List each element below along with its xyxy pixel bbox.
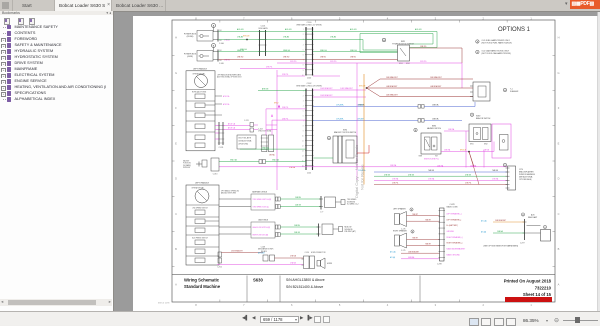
note circle B hazard <box>414 128 417 132</box>
svg-text:C-878: C-878 <box>437 264 442 266</box>
svg-text:S-3 (GRN) 1 C-2: S-3 (GRN) 1 C-2 <box>347 204 359 206</box>
svg-text:GROUND: GROUND <box>183 167 191 169</box>
svg-text:C7B RA: C7B RA <box>392 178 399 181</box>
svg-text:C: C <box>558 212 560 216</box>
svg-text:C/FLASH+: C/FLASH+ <box>336 104 344 107</box>
connector C101 <box>258 26 268 57</box>
svg-text:7HB BU: 7HB BU <box>428 170 435 172</box>
svg-text:POSITION: POSITION <box>183 163 191 165</box>
svg-text:GNB GG: GNB GG <box>320 50 327 52</box>
svg-text:GNB GG: GNB GG <box>237 50 245 52</box>
svg-text:HORN CONNECTOR: HORN CONNECTOR <box>311 252 326 254</box>
wire magenta hazard-beacon loop <box>441 128 494 152</box>
svg-text:C-877: C-877 <box>520 243 525 245</box>
wire blue cflash minus <box>313 118 462 123</box>
svg-text:7KB WT: 7KB WT <box>412 238 418 240</box>
svg-text:LEFT SPEAKER: LEFT SPEAKER <box>393 208 406 211</box>
drawing frame border <box>172 20 555 302</box>
svg-text:19B RD: 19B RD <box>350 57 357 59</box>
svg-text:SPLICE: SPLICE <box>359 86 366 88</box>
svg-text:C4B BN: C4B BN <box>295 197 302 199</box>
svg-text:GNB GG: GNB GG <box>283 50 291 52</box>
wire darkred SW1 right <box>410 46 463 63</box>
note circle A flasher <box>503 88 519 93</box>
wire green gateway out <box>280 197 321 199</box>
svg-text:SOLENOID: SOLENOID <box>347 201 356 203</box>
extra wire labels texture <box>390 164 499 185</box>
svg-text:D: D <box>558 177 560 181</box>
svg-text:1-MX BRACKET: 1-MX BRACKET <box>320 87 332 90</box>
wires C911 to C111 magenta <box>223 123 250 130</box>
wire blue to C270 <box>358 169 507 172</box>
svg-text:A7U3 CA: A7U3 CA <box>228 127 236 130</box>
left handle control box 2 <box>186 182 219 266</box>
svg-text:D7B PIL: D7B PIL <box>420 61 427 63</box>
wire darkred horn feed <box>222 249 264 252</box>
svg-text:(SPDM DHD): (SPDM DHD) <box>239 144 249 146</box>
switch SW5 hazard <box>419 126 442 158</box>
svg-text:SW2: SW2 <box>484 144 488 146</box>
connector C100 <box>296 22 322 80</box>
note circle A at SW1 <box>382 38 386 42</box>
note A text <box>476 39 512 45</box>
svg-text:47B GN: 47B GN <box>465 174 472 176</box>
wire magenta row76 <box>277 74 340 76</box>
label A/FLASH cyan <box>258 251 265 254</box>
svg-text:19B RD: 19B RD <box>283 57 290 59</box>
note circle A <box>212 24 216 32</box>
svg-text:C102: C102 <box>307 173 311 175</box>
svg-text:A05 GN: A05 GN <box>350 28 357 31</box>
svg-text:16: 16 <box>302 166 304 168</box>
connector C136 horn <box>302 252 327 269</box>
orange vertical wire <box>364 74 367 185</box>
note circle A sw4 <box>327 136 330 140</box>
label OPTIONS 1 <box>498 27 531 33</box>
socket position ground <box>183 158 219 176</box>
wire magenta row97 <box>313 94 366 97</box>
svg-text:RADIO CONN: RADIO CONN <box>447 205 459 208</box>
wires speakers to radio <box>407 214 440 246</box>
svg-text:11: 11 <box>302 141 304 143</box>
svg-text:C-111: C-111 <box>244 120 249 122</box>
svg-text:C-908: C-908 <box>261 247 265 249</box>
handle1 pin stubs <box>215 95 229 115</box>
label see option pages <box>484 245 519 248</box>
splice S1 <box>243 36 250 41</box>
horn speaker symbol <box>317 258 333 269</box>
connector C270 <box>503 163 534 190</box>
svg-text:S630: S630 <box>253 278 263 283</box>
splice S3 <box>460 150 479 185</box>
svg-text:CAN STBLB: CAN STBLB <box>258 219 269 222</box>
svg-text:RADIO GROUND: RADIO GROUND <box>447 253 461 256</box>
svg-text:C: C <box>175 212 177 216</box>
svg-text:B: B <box>175 247 177 251</box>
note circle B <box>212 44 216 52</box>
wire green GNB-GG <box>219 50 398 52</box>
svg-text:D7B PIL: D7B PIL <box>266 67 272 69</box>
radio connector C878 <box>437 204 458 266</box>
svg-text:TWO SPEED: TWO SPEED <box>347 199 357 201</box>
watermark digital copy <box>354 144 365 198</box>
svg-text:LEFT SPEAKER (+): LEFT SPEAKER (+) <box>447 213 463 216</box>
connector two speed <box>319 196 323 214</box>
svg-text:C-9?: C-9? <box>320 212 323 214</box>
svg-text:Sheet 14 of 15: Sheet 14 of 15 <box>523 292 552 297</box>
svg-text:CMB VA: CMB VA <box>432 104 439 107</box>
right speaker RS1 <box>393 230 414 253</box>
svg-text:C4B GN: C4B GN <box>295 205 302 207</box>
wires handle1 to C911 magenta <box>215 126 219 140</box>
svg-text:C6B RA: C6B RA <box>470 165 477 168</box>
svg-text:919: 919 <box>435 156 438 158</box>
svg-text:LEFT SPEAKER (-): LEFT SPEAKER (-) <box>447 218 462 221</box>
svg-text:7322210: 7322210 <box>535 286 552 291</box>
svg-text:FLASHER: FLASHER <box>510 90 519 93</box>
svg-text:C-MX BRACKET: C-MX BRACKET <box>340 87 353 90</box>
svg-text:GATEWAY UTBLB: GATEWAY UTBLB <box>252 191 268 194</box>
left speaker LS1 <box>393 208 413 231</box>
svg-text:G: G <box>175 71 177 75</box>
label C7B RA red <box>289 166 296 169</box>
svg-text:H: H <box>558 36 560 40</box>
svg-text:10: 10 <box>302 136 304 138</box>
svg-text:LEFT HANDLE: LEFT HANDLE <box>193 68 208 71</box>
wire magenta2 to C270 <box>374 178 507 181</box>
wire green A05-GN <box>219 28 438 47</box>
svg-text:19B RD: 19B RD <box>320 57 327 59</box>
svg-text:WIRE MAIN CONN 2 (DR DRIVE): WIRE MAIN CONN 2 (DR DRIVE) <box>296 85 322 88</box>
svg-text:GROUND: GROUND <box>447 231 455 233</box>
svg-text:BEACON SWITCH: BEACON SWITCH <box>476 117 491 120</box>
connector C908 <box>258 247 275 262</box>
title wiring schematic <box>184 278 221 290</box>
svg-text:Not for Resale: Not for Resale <box>360 164 365 190</box>
svg-text:Printed On August 2018: Printed On August 2018 <box>504 279 552 284</box>
wire labels magenta at brackets <box>224 39 231 62</box>
svg-text:7KB WT: 7KB WT <box>425 244 431 246</box>
svg-text:OPTIONS 1: OPTIONS 1 <box>498 27 531 33</box>
svg-text:1-MX BRACKET: 1-MX BRACKET <box>320 94 332 97</box>
svg-text:C-912: C-912 <box>217 267 222 269</box>
svg-text:L4B BRACKET: L4B BRACKET <box>386 85 397 88</box>
svg-text:TWO SPEED SOLN (L): TWO SPEED SOLN (L) <box>253 207 270 209</box>
wire green GNB GA row <box>240 146 306 149</box>
svg-text:C-136: C-136 <box>305 252 309 254</box>
radio pin labels <box>447 213 466 257</box>
svg-text:S/N B2L511400 & Above: S/N B2L511400 & Above <box>286 285 323 289</box>
svg-text:C4B BRACKET: C4B BRACKET <box>430 76 442 79</box>
label C103 <box>258 129 272 133</box>
svg-text:C-913: C-913 <box>213 174 218 176</box>
svg-text:A7U2 CA: A7U2 CA <box>228 123 236 126</box>
wire green SW1 loop <box>360 34 433 53</box>
svg-text:E: E <box>558 141 560 145</box>
connector C912 <box>217 252 222 269</box>
svg-text:C6B RA: C6B RA <box>448 128 455 131</box>
svg-text:7HB BU: 7HB BU <box>492 170 499 172</box>
svg-text:17B AG: 17B AG <box>224 39 231 42</box>
svg-text:L4B BRACKET: L4B BRACKET <box>430 85 441 88</box>
connector C102 <box>296 83 322 174</box>
svg-text:HAZARD SWITCH: HAZARD SWITCH <box>427 127 442 130</box>
wire green can out <box>280 225 318 227</box>
svg-text:E: E <box>175 141 177 145</box>
svg-text:C7B PIL: C7B PIL <box>392 183 398 185</box>
left handle control box 1 <box>186 68 215 151</box>
wire red out SW4 <box>357 145 369 153</box>
svg-text:C4B GN: C4B GN <box>294 232 301 234</box>
svg-text:B+ (BATTERY): B+ (BATTERY) <box>447 224 459 227</box>
svg-text:G: G <box>557 71 559 75</box>
svg-text:Digital Copy — Not for Resale: Digital Copy — Not for Resale <box>354 144 359 198</box>
svg-text:7KB WT: 7KB WT <box>412 214 418 216</box>
info box body harness <box>237 135 256 149</box>
svg-text:D7B PIL: D7B PIL <box>282 74 288 76</box>
connector C103 halves <box>261 135 274 152</box>
svg-text:SW8: SW8 <box>419 156 423 158</box>
side label opt handle <box>221 190 239 195</box>
svg-text:GNB GG: GNB GG <box>350 50 357 52</box>
wire magenta into C100 <box>240 67 306 69</box>
wire green2 gateway out <box>280 205 321 207</box>
radio ant device <box>527 225 551 241</box>
svg-text:19B RD: 19B RD <box>420 46 427 48</box>
svg-text:RADIO ANTENNA BRKT: RADIO ANTENNA BRKT <box>447 248 466 251</box>
svg-text:SW1: SW1 <box>399 63 403 65</box>
svg-text:Standard Machine: Standard Machine <box>184 284 221 289</box>
svg-text:47B GN: 47B GN <box>384 174 391 176</box>
svg-text:LEFT HANDLE: LEFT HANDLE <box>195 182 210 185</box>
svg-text:A05 GN: A05 GN <box>415 28 422 31</box>
svg-text:D5B PIL: D5B PIL <box>282 107 288 109</box>
svg-text:RADIO/ANT: RADIO/ANT <box>528 216 537 219</box>
connector bracket C10A <box>213 30 224 46</box>
zone letters left <box>175 36 177 287</box>
wire magenta y120 <box>271 114 306 135</box>
svg-text:19B RD: 19B RD <box>224 60 231 62</box>
wire magenta lower horn <box>217 261 304 264</box>
svg-text:SW1: SW1 <box>470 144 474 146</box>
title printed date <box>504 279 552 298</box>
svg-text:2ND SPEED SWITCH: 2ND SPEED SWITCH <box>192 208 207 210</box>
svg-text:A: A <box>558 282 560 286</box>
svg-text:SW4: SW4 <box>343 130 347 132</box>
switch SW1 power box S/D <box>392 41 414 65</box>
svg-text:H: H <box>175 36 177 40</box>
splice S2 fan <box>359 76 473 97</box>
svg-text:(GRN): (GRN) <box>187 56 193 58</box>
wire darkred C908 to C136 <box>275 255 304 258</box>
note B text <box>476 50 512 56</box>
svg-text:RIGHT SPEAKER (-): RIGHT SPEAKER (-) <box>447 242 463 245</box>
wire green2 can out <box>280 232 318 234</box>
svg-text:RIGHT SPEAKER: RIGHT SPEAKER <box>393 230 407 233</box>
svg-text:C4B BRACKET: C4B BRACKET <box>386 76 398 79</box>
svg-text:C7B RA: C7B RA <box>492 178 499 181</box>
svg-text:B: B <box>558 247 560 251</box>
svg-text:D: D <box>175 177 177 181</box>
svg-text:C6B RA: C6B RA <box>390 164 397 167</box>
wire magenta 1MX bracket <box>313 87 366 90</box>
wire green into SW4 <box>314 157 334 159</box>
svg-text:MDI/LOW: MDI/LOW <box>345 227 352 229</box>
svg-text:(SEE OPTION PAGES FOR HARNESSE: (SEE OPTION PAGES FOR HARNESSES) <box>484 245 519 248</box>
svg-text:7KB WT: 7KB WT <box>425 219 431 221</box>
svg-text:Wiring Schematic: Wiring Schematic <box>184 278 220 283</box>
svg-text:HIGH FLOW SWITCH (M): HIGH FLOW SWITCH (M) <box>253 227 271 229</box>
splice SPD2 arrow <box>266 103 306 136</box>
title block <box>172 274 555 302</box>
svg-text:C-10B: C-10B <box>219 63 224 65</box>
svg-text:C-103: C-103 <box>258 129 263 131</box>
svg-text:GND GA: GND GA <box>272 159 280 162</box>
svg-text:C-911: C-911 <box>219 147 224 149</box>
side note handle wiring <box>217 74 242 79</box>
connector C111 <box>244 120 258 132</box>
label J7B RA <box>269 154 275 157</box>
red stamp bar <box>505 297 552 302</box>
svg-text:12: 12 <box>302 146 304 148</box>
label hazard lights <box>424 159 439 161</box>
page footer tiny <box>158 303 170 305</box>
wire magenta to C270 <box>219 165 507 168</box>
svg-text:A05 GN: A05 GN <box>237 28 244 31</box>
svg-text:SPLICE: SPLICE <box>243 36 250 38</box>
svg-text:A05 GN: A05 GN <box>285 28 292 31</box>
flasher T1 <box>470 82 490 101</box>
svg-text:13: 13 <box>302 151 304 153</box>
svg-text:SIDE HARN: SIDE HARN <box>258 27 268 30</box>
svg-text:A: A <box>175 282 177 286</box>
svg-text:19B RD: 19B RD <box>237 57 244 59</box>
svg-text:HORN: HORN <box>327 263 333 265</box>
connector C911 <box>218 122 224 149</box>
zone letters right <box>557 36 559 287</box>
svg-text:C4B BRACKET: C4B BRACKET <box>386 94 398 97</box>
svg-text:GND GA: GND GA <box>230 159 238 162</box>
svg-text:A7B GN: A7B GN <box>262 88 269 91</box>
wire magenta D7B top bus <box>277 61 462 88</box>
connector high flow <box>317 224 321 237</box>
wire green to C270 <box>374 174 507 176</box>
zone numbers bottom <box>195 303 532 307</box>
svg-text:C6B RA: C6B RA <box>437 165 444 168</box>
svg-text:C270: C270 <box>519 169 523 171</box>
svg-text:RIGHT SPEAKER (+): RIGHT SPEAKER (+) <box>447 236 464 239</box>
svg-text:(FUSE): (FUSE) <box>187 36 194 38</box>
svg-text:C7B PIL: C7B PIL <box>465 183 471 185</box>
can option box <box>251 219 280 239</box>
svg-text:HIGH FLOW SOLN (M): HIGH FLOW SOLN (M) <box>253 235 269 237</box>
svg-text:14: 14 <box>302 156 304 158</box>
svg-text:C6B RA: C6B RA <box>444 149 451 152</box>
svg-text:SOLENOID: SOLENOID <box>345 229 354 231</box>
svg-text:D7B PIL: D7B PIL <box>290 61 297 63</box>
solenoid two speed <box>325 197 359 208</box>
wire magenta vertical x277 <box>266 70 277 190</box>
svg-text:SW2: SW2 <box>406 63 410 65</box>
zone numbers top <box>195 17 532 21</box>
svg-text:C7B RA: C7B RA <box>428 178 435 181</box>
switch SW2 beacon <box>469 113 491 146</box>
svg-text:TWO SPEED SWITCH (M): TWO SPEED SWITCH (M) <box>253 199 272 201</box>
svg-text:C-175: C-175 <box>401 250 405 252</box>
solenoid high flow <box>322 224 356 235</box>
wire darkred 19B-RD <box>219 57 398 60</box>
wire blue cflash plus <box>313 102 475 108</box>
svg-text:D5B PIL: D5B PIL <box>282 118 288 120</box>
wire darkred to C270 <box>374 183 507 185</box>
switch SW4 bracket position <box>333 130 357 164</box>
svg-text:659 of 1178: 659 of 1178 <box>158 303 170 305</box>
svg-text:S/N AHGL13800 & Above: S/N AHGL13800 & Above <box>286 278 325 282</box>
wires radio bottom feeds <box>390 250 440 259</box>
wire green into C102 top <box>258 88 306 91</box>
connector C877 <box>520 213 537 245</box>
svg-text:C4B BN: C4B BN <box>294 225 301 227</box>
svg-text:C100: C100 <box>307 78 311 80</box>
power box ground G1 <box>184 51 213 62</box>
magenta verticals middle <box>357 63 484 180</box>
svg-text:GNB GA: GNB GA <box>262 146 269 149</box>
title model S630 <box>253 278 263 283</box>
svg-text:47B GN: 47B GN <box>408 174 415 176</box>
title serial numbers <box>286 278 325 289</box>
connector bracket C10B <box>213 50 224 66</box>
magenta option box beacon <box>492 124 511 158</box>
svg-text:D7B PIL: D7B PIL <box>330 61 337 63</box>
wires handle2 to gateway <box>219 199 251 234</box>
svg-text:17B AG: 17B AG <box>330 36 337 39</box>
svg-text:C/FLASH-: C/FLASH- <box>336 118 344 121</box>
wires into C877 <box>481 219 525 233</box>
svg-text:SW8 919 (S7B PIL): SW8 919 (S7B PIL) <box>424 159 439 161</box>
svg-text:WIRE MAIN CONN 1 (X7 DRIVE): WIRE MAIN CONN 1 (X7 DRIVE) <box>296 23 322 26</box>
svg-text:(NOT IN S/D CAB HARN 7320991): (NOT IN S/D CAB HARN 7320991) <box>482 52 512 55</box>
svg-text:SPD2: SPD2 <box>274 103 278 105</box>
extra labels top <box>240 49 357 59</box>
gateway option box <box>251 191 280 211</box>
wire green GND <box>219 159 306 164</box>
power box fuse F1 <box>184 31 213 42</box>
wire green 17B-AG <box>219 36 398 50</box>
svg-text:(NOT IN S/D FUEL HARN 7149119): (NOT IN S/D FUEL HARN 7149119) <box>482 42 513 45</box>
svg-text:17B AG: 17B AG <box>283 36 290 39</box>
svg-text:CMB VA: CMB VA <box>432 118 439 121</box>
